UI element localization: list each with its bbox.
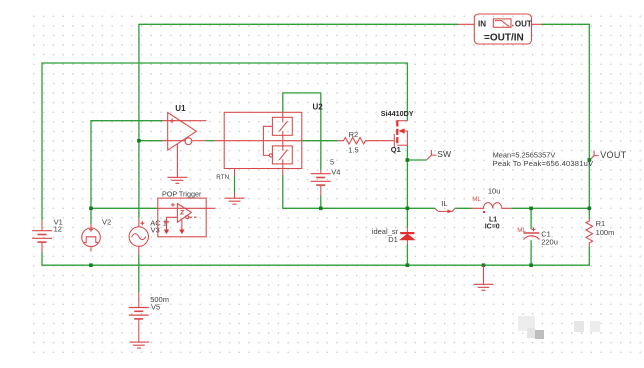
svg-text:V4: V4 [331, 168, 340, 177]
junction: D1 ground rail [406, 263, 410, 267]
probe IL [435, 208, 455, 211]
svg-text:Q1: Q1 [391, 145, 401, 154]
svg-text:D1: D1 [388, 235, 398, 244]
svg-text:V3: V3 [151, 226, 160, 235]
svg-text:1.5: 1.5 [348, 145, 358, 154]
svg-text:SW: SW [437, 149, 451, 159]
svg-text:ML: ML [517, 227, 526, 234]
svg-text:V2: V2 [102, 218, 111, 227]
wire: V3 branch vertical [138, 141, 140, 293]
svg-text:Si4410DY: Si4410DY [381, 109, 414, 118]
capacitor C1 [523, 227, 539, 239]
battery V5 [129, 293, 149, 343]
svg-text:OUT: OUT [515, 19, 532, 28]
probe block =OUT/IN [458, 14, 542, 44]
svg-text:L1: L1 [489, 217, 497, 224]
svg-text:V5: V5 [151, 303, 160, 312]
junction: V2 / POP node [89, 207, 93, 211]
junction: C1 top [529, 207, 533, 211]
battery V4 [311, 170, 331, 196]
wire: IL to L1 [455, 207, 471, 209]
svg-text:12: 12 [54, 225, 62, 234]
svg-text:R2: R2 [349, 130, 359, 139]
svg-text:U2: U2 [313, 102, 324, 111]
resistor R2 [338, 137, 395, 144]
wire: V2 branch to U1 plus input [91, 121, 163, 224]
svg-text:10u: 10u [488, 186, 501, 195]
junction: VOUT mid rail [588, 207, 592, 211]
svg-text:RTN: RTN [216, 174, 229, 181]
diode D1 [400, 228, 414, 245]
sine source V3 [129, 219, 148, 255]
wire: U2 RTN stem [234, 176, 236, 193]
pulse source V2 [82, 224, 101, 252]
svg-text:VOUT: VOUT [600, 150, 627, 160]
ground: V5 [130, 342, 150, 348]
svg-text:POP Trigger: POP Trigger [162, 190, 202, 199]
pop trigger arrows [164, 230, 185, 235]
svg-text:=OUT/IN: =OUT/IN [484, 32, 524, 43]
wire: R1 top stem [588, 208, 590, 219]
junction: V4 mid rail [319, 207, 323, 211]
wire: L1 to output node [512, 207, 590, 209]
wire: SW stub [407, 159, 426, 161]
wire: VIN top rail [139, 24, 458, 140]
probe IL arrowhead [448, 210, 452, 214]
ground: RTN [225, 198, 245, 204]
junction: U1 minus node [137, 139, 141, 143]
ground: U1 [167, 144, 187, 184]
wire: supply rail from V1 to Q1 drain [42, 63, 407, 221]
junction: C1 bottom [529, 263, 533, 267]
wire: VOUT rail right [542, 24, 590, 208]
svg-text:IL: IL [441, 199, 447, 208]
op-amp U1 [163, 113, 207, 151]
junction: ground tap rail [482, 263, 486, 267]
node VOUT [588, 158, 592, 162]
wire: U1 output to U2 input [205, 140, 214, 142]
junction: V2 ground rail [89, 263, 93, 267]
wire: POP trigger input [91, 207, 158, 209]
wire: ground rail bottom [42, 247, 589, 266]
wire: C1 branch [530, 208, 532, 265]
svg-text:Peak To Peak=656.40381uV: Peak To Peak=656.40381uV [493, 159, 594, 168]
svg-text:IC=0: IC=0 [485, 224, 500, 231]
battery V1 [32, 221, 52, 253]
transistor Q1 [394, 120, 407, 148]
junction: Q1 source mid rail [406, 207, 410, 211]
svg-text:Mean=5.2565357V: Mean=5.2565357V [493, 150, 556, 159]
pop trigger block [158, 198, 216, 237]
wire: V4 bottom stem [320, 196, 322, 208]
node SW marker [426, 150, 436, 160]
resistor R1 [586, 219, 593, 247]
inductor L1 [472, 203, 512, 209]
driver block U2 [215, 112, 302, 198]
wire: U2 output to R2 [302, 140, 338, 142]
svg-text:220u: 220u [541, 238, 558, 247]
VOUT marker [591, 151, 599, 159]
wire: Q1 source to D1 to ground rail [406, 145, 408, 265]
Q1 body arrow [398, 128, 404, 133]
ground: output rail [474, 265, 494, 290]
wire: U1 minus input from node [139, 140, 163, 142]
svg-text:100m: 100m [596, 228, 615, 237]
svg-text:IN: IN [478, 19, 486, 28]
svg-text:ML: ML [472, 196, 481, 203]
svg-text:R1: R1 [596, 219, 606, 228]
svg-text:U1: U1 [175, 104, 186, 113]
wire: U2 VCC hat to V4 [283, 93, 321, 170]
svg-text:5: 5 [330, 158, 334, 167]
junction: SW node [406, 158, 410, 162]
wire: U2 bottom to mid rail [283, 175, 435, 208]
L1 phase dot [483, 211, 485, 213]
